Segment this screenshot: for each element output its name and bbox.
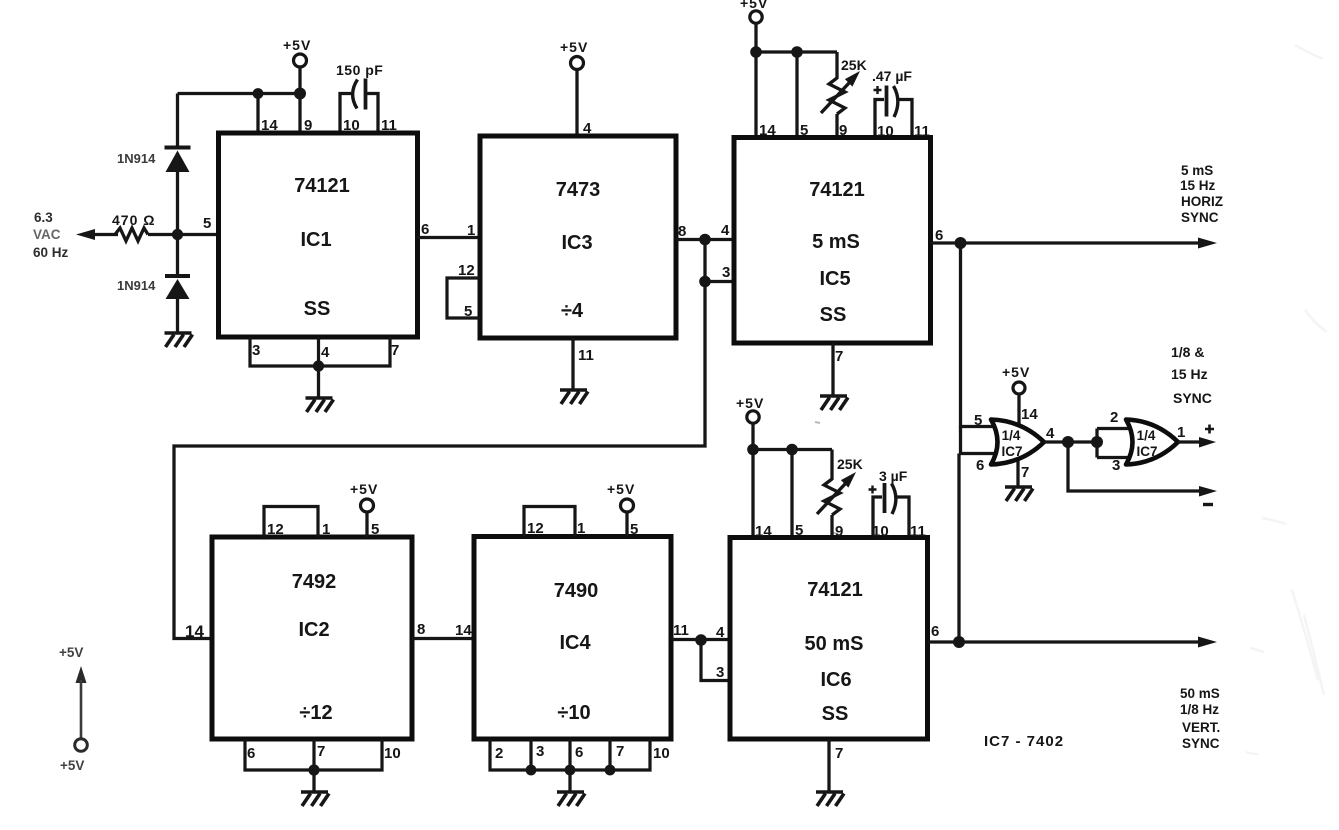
resistor R1 470 ohm xyxy=(115,228,148,241)
IC4 bottom ground loop pins 2-3-6-7-10 xyxy=(490,739,650,770)
junction dot IC5 pin 5 rail xyxy=(791,46,803,58)
svg-text:4: 4 xyxy=(721,222,730,239)
svg-text:IC7: IC7 xyxy=(1001,444,1022,459)
svg-text:9: 9 xyxy=(839,122,847,139)
diode D1 1N914 (to +5V) xyxy=(165,148,191,173)
svg-text:60 Hz: 60 Hz xyxy=(33,245,69,260)
wire IC6 pin 3 loop xyxy=(701,640,730,681)
wire IC6 pin 6 output VERT SYNC xyxy=(928,637,1218,648)
junction dot IC5 pin 4 xyxy=(699,234,711,246)
svg-text:14: 14 xyxy=(759,122,776,139)
svg-text:SS: SS xyxy=(820,304,847,326)
svg-text:11: 11 xyxy=(673,622,689,639)
ground (IC6 pin 7) xyxy=(816,792,844,806)
wire: vertical bus to NOR gate inputs xyxy=(959,243,1002,642)
svg-text:1/4: 1/4 xyxy=(1002,428,1021,443)
svg-text:3: 3 xyxy=(1112,457,1120,474)
ground (IC2) xyxy=(301,792,329,806)
junction dot IC4 pin 6 xyxy=(565,765,576,776)
svg-text:4: 4 xyxy=(1046,425,1055,442)
label - polarity xyxy=(1203,503,1213,506)
svg-text:1: 1 xyxy=(1177,424,1185,441)
wire IC4 pin 11 to IC6 pin 4 xyxy=(671,638,730,641)
junction dot IC4 pin 3 xyxy=(526,765,537,776)
svg-text:9: 9 xyxy=(304,117,312,134)
+5V terminal (IC3 pin 4) xyxy=(560,39,588,136)
IC4 pin number labels xyxy=(455,520,689,762)
wire: IC5 +5V rail pins 14/5 xyxy=(756,52,837,137)
ground (IC7 pin 7) xyxy=(1005,487,1033,501)
+5V legend symbol xyxy=(59,645,87,773)
IC5 74121 box xyxy=(734,138,931,344)
svg-text:74121: 74121 xyxy=(294,175,350,197)
U7b pin number labels xyxy=(1110,409,1185,474)
svg-text:5: 5 xyxy=(800,122,808,139)
svg-text:3 µF: 3 µF xyxy=(879,468,908,484)
svg-text:1/4: 1/4 xyxy=(1137,428,1156,443)
junction dot rail/pin9 xyxy=(294,88,306,100)
junction dot IC5 pin 14 rail xyxy=(750,46,762,58)
diode D2 1N914 (to ground) xyxy=(165,276,190,299)
svg-text:10: 10 xyxy=(872,523,889,540)
capacitor .47 uF (IC5 pins 10-11) xyxy=(874,86,913,138)
IC6 pin number labels xyxy=(716,522,939,762)
svg-text:+5V: +5V xyxy=(1002,364,1030,380)
svg-text:50 mS: 50 mS xyxy=(1180,686,1220,701)
svg-text:10: 10 xyxy=(343,117,360,134)
svg-text:8: 8 xyxy=(417,621,425,638)
IC6 74121 box xyxy=(730,538,928,740)
svg-text:IC7: IC7 xyxy=(1136,444,1157,459)
svg-text:+5V: +5V xyxy=(283,37,311,53)
svg-text:÷4: ÷4 xyxy=(561,300,584,322)
wire: IC4 to ground xyxy=(568,770,571,791)
label 5 mS 15 Hz HORIZ SYNC xyxy=(1180,163,1223,225)
svg-text:4: 4 xyxy=(583,120,592,137)
svg-text:5: 5 xyxy=(371,521,379,538)
svg-text:11: 11 xyxy=(578,347,594,364)
wire IC5 pin 6 output HORIZ SYNC xyxy=(931,238,1218,249)
+5V terminal (IC4 pin 5) xyxy=(607,481,635,537)
svg-text:IC6: IC6 xyxy=(820,669,851,691)
+5V terminal (IC1 pins 14/9) xyxy=(283,37,311,94)
potentiometer 25K (IC6 pin 9) xyxy=(817,472,856,537)
svg-text:14: 14 xyxy=(455,622,472,639)
svg-text:7490: 7490 xyxy=(554,580,599,602)
svg-text:5 mS: 5 mS xyxy=(812,231,860,253)
svg-text:1N914: 1N914 xyxy=(117,151,156,166)
svg-text:2: 2 xyxy=(495,745,503,762)
IC3 7473 box xyxy=(480,136,676,338)
svg-text:VERT.: VERT. xyxy=(1182,720,1220,735)
NOR gate U7b (1/4 IC7, pins 2,3 -> 1) xyxy=(1126,420,1178,465)
svg-text:7: 7 xyxy=(835,348,843,365)
IC1 pins 3-4-7 ground loop xyxy=(250,337,390,366)
svg-text:470 Ω: 470 Ω xyxy=(112,212,155,228)
+5V terminal (IC6 pins 14/5) xyxy=(736,395,764,450)
svg-text:6: 6 xyxy=(931,623,939,640)
ground (IC4) xyxy=(557,792,585,806)
svg-text:6: 6 xyxy=(421,221,429,238)
svg-text:5 mS: 5 mS xyxy=(1181,163,1213,178)
svg-text:7: 7 xyxy=(1021,464,1029,481)
svg-text:3: 3 xyxy=(716,664,724,681)
junction dot IC6 pin 4 xyxy=(695,634,707,646)
svg-text:150 pF: 150 pF xyxy=(336,62,383,78)
wire: diode chain vertical xyxy=(176,94,179,334)
svg-text:8: 8 xyxy=(678,223,686,240)
svg-text:11: 11 xyxy=(914,123,930,140)
svg-text:SYNC: SYNC xyxy=(1182,736,1220,751)
junction dot VERT takeoff xyxy=(953,636,965,648)
svg-text:÷10: ÷10 xyxy=(557,702,590,724)
+5V terminal (IC2 pin 5) xyxy=(350,481,378,537)
IC2 bottom ground loop pins 6-7-10 xyxy=(245,739,382,770)
svg-text:1: 1 xyxy=(322,521,330,538)
wire: U7b output arrow (positive sync) xyxy=(1178,437,1216,448)
IC3 pin number labels xyxy=(458,120,686,364)
svg-text:11: 11 xyxy=(381,117,397,134)
wire: NOR gate U7a pin 7 to ground xyxy=(1016,455,1019,486)
svg-text:7: 7 xyxy=(616,743,624,760)
IC2 7492 box xyxy=(212,537,412,739)
svg-text:SS: SS xyxy=(304,298,331,320)
U7a pin number labels xyxy=(974,406,1055,481)
svg-text:7: 7 xyxy=(835,745,843,762)
wire: IC6 pin 7 to ground xyxy=(827,739,830,791)
svg-text:6.3: 6.3 xyxy=(34,210,53,225)
+5V terminal (IC7 pin 14) xyxy=(1002,364,1030,430)
IC2 pins 12-1 loop xyxy=(264,507,318,538)
ground (below D2) xyxy=(165,333,193,347)
svg-text:7473: 7473 xyxy=(556,179,601,201)
svg-text:11: 11 xyxy=(910,523,926,540)
junction dot IC2 pin 7 xyxy=(308,764,319,775)
label 1/8 & 15 Hz SYNC xyxy=(1171,344,1212,406)
+5V terminal (IC5 pins 14/5) xyxy=(740,0,768,52)
svg-text:10: 10 xyxy=(653,745,670,762)
svg-text:+5V: +5V xyxy=(60,758,84,773)
wire: IC2 pin 7 to ground xyxy=(312,770,315,791)
svg-text:7: 7 xyxy=(391,342,399,359)
svg-text:SYNC: SYNC xyxy=(1173,390,1212,406)
svg-text:4: 4 xyxy=(321,344,330,361)
svg-text:4: 4 xyxy=(716,624,725,641)
svg-text:1: 1 xyxy=(467,222,475,239)
svg-text:+5V: +5V xyxy=(59,645,83,660)
svg-text:5: 5 xyxy=(630,521,638,538)
IC5 pin number labels xyxy=(721,122,943,365)
wire: IC1 pin4 to ground xyxy=(317,366,320,397)
svg-text:3: 3 xyxy=(252,342,260,359)
IC1 pin number labels xyxy=(203,117,429,361)
svg-text:1N914: 1N914 xyxy=(117,278,156,293)
svg-text:9: 9 xyxy=(835,523,843,540)
svg-text:1/8 Hz: 1/8 Hz xyxy=(1180,702,1219,717)
junction dot U7b input tie xyxy=(1091,436,1103,448)
svg-text:6: 6 xyxy=(247,745,255,762)
wire: negative sync branch arrow xyxy=(1068,442,1217,497)
junction dot IC6 pin 14 rail xyxy=(747,444,759,456)
potentiometer 25K (IC5 pin 9) xyxy=(821,71,860,137)
svg-text:HORIZ: HORIZ xyxy=(1181,194,1223,209)
svg-text:14: 14 xyxy=(261,117,278,134)
svg-text:14: 14 xyxy=(755,523,772,540)
wire: resistor to IC1 pin 5 xyxy=(148,233,218,236)
svg-text:3: 3 xyxy=(722,264,730,281)
svg-text:2: 2 xyxy=(1110,409,1118,426)
svg-text:15 Hz: 15 Hz xyxy=(1180,178,1216,193)
svg-text:+5V: +5V xyxy=(740,0,768,11)
svg-text:+5V: +5V xyxy=(736,395,764,411)
wire IC5 pin 3 branch xyxy=(705,280,734,283)
label 50 mS 1/8 Hz VERT SYNC xyxy=(1180,686,1220,751)
svg-text:14: 14 xyxy=(185,622,204,641)
capacitor 3 uF (IC6 pins 10-11) xyxy=(869,483,910,537)
node: clamp input junction xyxy=(172,229,183,240)
wire IC2 pin 8 to IC4 pin 14 xyxy=(412,637,474,640)
svg-text:74121: 74121 xyxy=(809,179,865,201)
svg-text:10: 10 xyxy=(384,745,401,762)
svg-text:IC1: IC1 xyxy=(300,229,331,251)
junction dot IC6 pin 5 rail xyxy=(786,444,798,456)
svg-text:SYNC: SYNC xyxy=(1181,210,1219,225)
svg-text:IC4: IC4 xyxy=(559,632,591,654)
svg-text:1: 1 xyxy=(577,520,585,537)
ground (IC1 pin 4) xyxy=(306,398,334,412)
svg-text:.47 µF: .47 µF xyxy=(872,68,912,84)
svg-text:IC3: IC3 xyxy=(561,232,592,254)
svg-text:1/8 &: 1/8 & xyxy=(1171,344,1204,360)
svg-text:12: 12 xyxy=(267,521,284,538)
svg-text:3: 3 xyxy=(536,743,544,760)
svg-text:74121: 74121 xyxy=(807,579,863,601)
svg-text:+5V: +5V xyxy=(350,481,378,497)
svg-text:6: 6 xyxy=(575,744,583,761)
svg-text:IC2: IC2 xyxy=(298,619,329,641)
svg-text:IC5: IC5 xyxy=(819,268,850,290)
feedback wire IC3 output to IC2 pin 14 xyxy=(174,240,705,639)
IC2 pin number labels xyxy=(185,521,425,762)
wire: U7a output to U7b input loop xyxy=(1044,429,1134,458)
ground (IC3 pin 11) xyxy=(560,390,588,404)
wire: IC5 pin 7 to ground xyxy=(831,343,834,395)
svg-text:10: 10 xyxy=(877,123,894,140)
junction dot IC1 pin4 xyxy=(313,360,324,371)
svg-text:6: 6 xyxy=(976,457,984,474)
capacitor C1 150 pF (IC1 pins 10-11) xyxy=(340,79,378,134)
svg-text:14: 14 xyxy=(1021,406,1038,423)
wire: IC3 pin 11 to ground xyxy=(571,338,574,389)
svg-text:7: 7 xyxy=(317,743,325,760)
svg-text:+5V: +5V xyxy=(560,39,588,55)
svg-text:25K: 25K xyxy=(837,456,863,472)
svg-text:SS: SS xyxy=(822,703,849,725)
ground (IC5 pin 7) xyxy=(820,396,848,410)
svg-text:7492: 7492 xyxy=(292,571,337,593)
svg-text:5: 5 xyxy=(974,412,982,429)
IC4 7490 box xyxy=(474,537,671,740)
junction dot U7a output xyxy=(1062,436,1074,448)
junction dot IC5 pin 3 xyxy=(699,276,711,288)
IC4 pins 12-1 loop xyxy=(524,507,575,537)
NOR gate U7a (1/4 IC7, pins 5,6 -> 4) xyxy=(991,420,1044,465)
svg-text:VAC: VAC xyxy=(33,227,61,242)
wire: +5V rail to pin 14 and diode D1 xyxy=(178,94,301,134)
label 6.3 VAC 60 Hz xyxy=(33,210,69,260)
wire IC1 pin 6 to IC3 pin 1 xyxy=(418,236,481,239)
junction dot HORIZ takeoff xyxy=(955,237,967,249)
svg-text:+5V: +5V xyxy=(607,481,635,497)
svg-text:5: 5 xyxy=(203,215,211,232)
svg-text:50 mS: 50 mS xyxy=(805,633,864,655)
svg-text:5: 5 xyxy=(795,522,803,539)
input arrow (6.3 VAC source) xyxy=(76,229,118,240)
label + polarity xyxy=(1205,425,1214,434)
svg-text:IC7 - 7402: IC7 - 7402 xyxy=(984,733,1064,750)
wire: IC6 +5V rail pins 14/5 xyxy=(753,450,832,538)
svg-text:÷12: ÷12 xyxy=(299,702,332,724)
IC1 74121 box xyxy=(219,133,418,337)
junction dot rail/pin14 xyxy=(253,88,264,99)
svg-text:12: 12 xyxy=(527,520,544,537)
svg-text:15 Hz: 15 Hz xyxy=(1171,366,1208,382)
wire IC3 pin 8 to IC5 pin 4 xyxy=(676,238,734,241)
junction dot IC4 pin 7 xyxy=(605,765,616,776)
IC3 pins 12-5 feedback loop xyxy=(447,278,480,318)
svg-text:25K: 25K xyxy=(841,57,867,73)
